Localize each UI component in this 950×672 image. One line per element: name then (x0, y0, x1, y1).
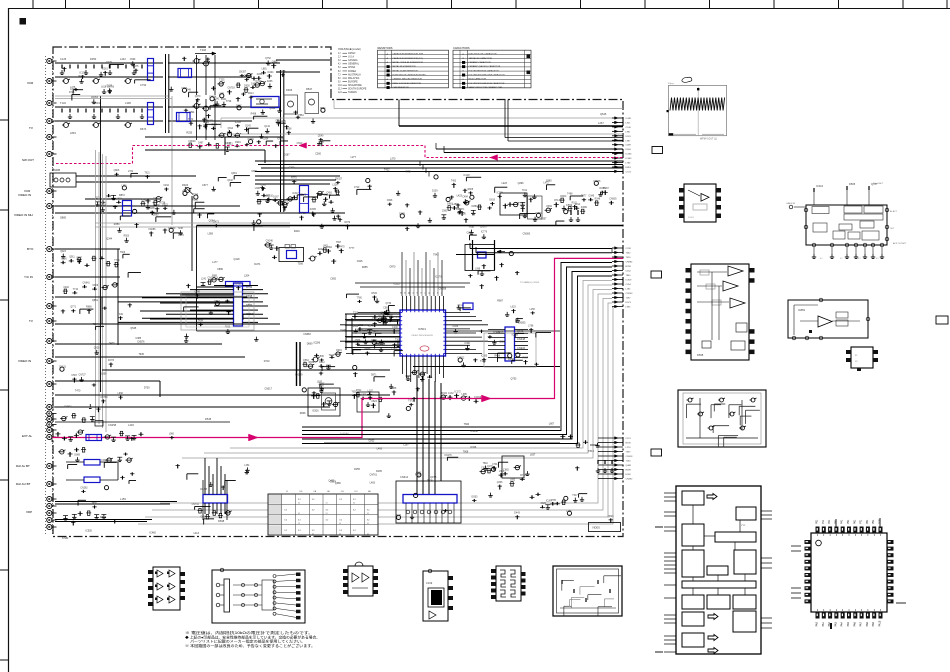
svg-text:(model): (model) (352, 47, 361, 51)
svg-text:AUSTRALIA: AUSTRALIA (348, 73, 361, 76)
svg-text:TO MAIN(1) CN105: TO MAIN(1) CN105 (520, 281, 540, 284)
svg-text:C494: C494 (63, 287, 69, 289)
svg-text:R185: R185 (149, 208, 155, 210)
svg-text:C723: C723 (626, 171, 632, 173)
burst gate cluster (313, 197, 315, 202)
svg-text:T506: T506 (298, 263, 304, 266)
svg-text:C446: C446 (392, 327, 398, 329)
svg-text:CERAMIC (VALLEY) CAPACITOR: CERAMIC (VALLEY) CAPACITOR (469, 65, 501, 68)
svg-text:P81: P81 (866, 519, 869, 524)
svg-text:IC463: IC463 (626, 158, 633, 160)
svg-text:IC779: IC779 (481, 232, 488, 234)
svg-text:8J: 8J (338, 78, 340, 80)
quad op-amp IC603 (691, 264, 749, 360)
svg-text:L423: L423 (457, 195, 463, 198)
pin-row interface IC502 (blue) (505, 327, 515, 361)
hybrid module IC906 (boxed) (553, 566, 622, 616)
svg-text:1J: 1J (353, 503, 355, 505)
svg-text:R629: R629 (415, 473, 421, 476)
svg-text:YYY: YYY (741, 525, 746, 527)
svg-text:L834: L834 (263, 139, 269, 141)
pre-QFP network upper (443, 215, 445, 218)
svg-text:CHIP RESISTOR: CHIP RESISTOR (393, 87, 410, 89)
svg-text:CN683: CN683 (303, 333, 311, 336)
waveform callout balloon (682, 77, 692, 82)
svg-text:POLYPROPYLENE CHIP CAPACITOR: POLYPROPYLENE CHIP CAPACITOR (469, 74, 506, 77)
svg-text:CN216: CN216 (496, 331, 504, 334)
svg-text:IC288: IC288 (512, 334, 519, 337)
svg-text:T435: T435 (372, 320, 378, 322)
magenta solid arrow 2 (482, 395, 492, 402)
svg-text:L586: L586 (319, 356, 325, 358)
VCR input RC network row 1 (55, 62, 163, 64)
svg-text:6J: 6J (338, 71, 340, 73)
svg-text:R789: R789 (626, 266, 632, 268)
svg-text:SOUTH EUROPE: SOUTH EUROPE (348, 89, 367, 91)
svg-text:SINGAPORE: SINGAPORE (348, 84, 362, 87)
svg-text:L204: L204 (244, 274, 250, 277)
svg-text:RESISTORS: RESISTORS (378, 46, 393, 50)
svg-text:CN953: CN953 (91, 97, 99, 99)
magenta dashed signal route (56, 146, 623, 164)
svg-text:3J: 3J (338, 60, 340, 62)
VDP input wires (55, 501, 177, 503)
svg-text:1J: 1J (367, 523, 369, 525)
svg-text:D970: D970 (390, 265, 396, 268)
shield box (dashed) S1 (284, 95, 298, 114)
svg-text:IC172: IC172 (455, 391, 462, 393)
svg-text:IC873: IC873 (108, 360, 115, 362)
svg-text:MICA CAPACITOR: MICA CAPACITOR (469, 78, 487, 81)
svg-text:L223: L223 (502, 182, 508, 185)
delay line DL401 on magenta route (blue) (86, 435, 102, 441)
svg-text:IC696: IC696 (277, 138, 284, 140)
svg-text:CN317: CN317 (264, 388, 272, 391)
svg-text:T520: T520 (626, 257, 632, 259)
svg-text:Q336: Q336 (497, 482, 503, 484)
svg-text:AL ACT: AL ACT (890, 210, 898, 213)
svg-text:P21: P21 (828, 519, 831, 524)
page frame left rule (8, 8, 10, 672)
magenta route arrow 1 (299, 143, 307, 149)
svg-text:C567: C567 (71, 375, 77, 377)
sub-carrier box (500, 193, 527, 215)
svg-text:CN935: CN935 (609, 199, 617, 201)
svg-text:R979: R979 (345, 222, 351, 224)
svg-text:T448: T448 (200, 48, 206, 52)
svg-text:L837: L837 (530, 454, 536, 457)
svg-text:PA7: PA7 (860, 621, 863, 626)
svg-text:1J: 1J (338, 53, 340, 55)
block diagram IC602 (806, 205, 887, 245)
svg-text:T349: T349 (118, 314, 124, 316)
edge connector pins right group 2 (612, 247, 623, 249)
svg-text:R796: R796 (246, 285, 253, 289)
svg-text:12J: 12J (338, 92, 342, 94)
svg-text:VDP: VDP (26, 510, 32, 514)
small regulator IC605 (851, 347, 873, 368)
switch matrix transistors mid (247, 73, 251, 77)
svg-text:CN984: CN984 (626, 262, 634, 264)
svg-text:CN560: CN560 (101, 460, 109, 462)
svg-text:R783: R783 (79, 76, 85, 78)
QFP index ellipse (red) (420, 346, 429, 351)
block left pin stubs (664, 492, 676, 494)
svg-text:Q771: Q771 (70, 307, 76, 309)
microcontroller IC801 (QFP-48) (811, 533, 887, 612)
svg-text:T810: T810 (483, 463, 489, 465)
svg-text:C566: C566 (355, 340, 361, 342)
svg-text:L508: L508 (265, 196, 271, 198)
svg-text:C132: C132 (448, 393, 454, 395)
svg-text:C494: C494 (462, 197, 468, 199)
svg-text:IC784: IC784 (248, 139, 255, 141)
svg-text:T606: T606 (120, 252, 126, 254)
dashed box oscillator (322, 393, 336, 410)
svg-text:TANTALUM CAPACITOR: TANTALUM CAPACITOR (469, 57, 493, 60)
svg-text:Q342: Q342 (227, 180, 233, 182)
svg-text:59: 59 (413, 292, 415, 294)
svg-text:C354: C354 (626, 284, 632, 286)
svg-text:EXT AL: EXT AL (22, 434, 32, 438)
crystal cluster top-center (546, 208, 550, 212)
svg-text:CARBON FILM RESISTOR (P-1): CARBON FILM RESISTOR (P-1) (393, 57, 424, 60)
svg-text:C881: C881 (251, 170, 257, 173)
svg-text:T325: T325 (219, 80, 225, 82)
svg-text:Q296: Q296 (518, 182, 525, 185)
filter FL102 (blue) (177, 113, 191, 122)
svg-text:Q158: Q158 (430, 475, 437, 479)
svg-text:T841: T841 (214, 99, 220, 101)
svg-text:TV: TV (29, 126, 33, 130)
svg-text:CN649: CN649 (188, 141, 196, 143)
wires from left jacks to sync column (55, 296, 247, 298)
main video processor IC501 (QFP) (400, 310, 446, 356)
svg-text:D430: D430 (109, 342, 115, 345)
svg-text:C256: C256 (61, 259, 67, 261)
svg-text:R366: R366 (387, 316, 393, 318)
svg-text:IC601: IC601 (688, 217, 695, 219)
svg-text:20: 20 (437, 292, 439, 294)
svg-text:CN230: CN230 (168, 228, 176, 230)
svg-text:CN458: CN458 (299, 213, 307, 215)
svg-text:PA6: PA6 (853, 621, 856, 626)
svg-text:R954: R954 (320, 108, 326, 110)
svg-text:C487: C487 (198, 143, 204, 145)
svg-text:R346: R346 (595, 199, 601, 201)
svg-text:Q919: Q919 (231, 173, 237, 175)
svg-text:L960: L960 (169, 434, 175, 436)
svg-text:P91: P91 (872, 519, 875, 524)
QFP bottom pin stubs (402, 356, 404, 374)
svg-text:R503: R503 (124, 235, 130, 237)
svg-text:0.1: 0.1 (840, 258, 843, 260)
svg-text:T470: T470 (75, 390, 81, 393)
svg-text:C824: C824 (371, 401, 377, 403)
svg-text:VIDEO: VIDEO (592, 526, 600, 530)
svg-text:CN327: CN327 (335, 179, 343, 181)
svg-text:D545: D545 (205, 417, 212, 421)
svg-text:C125: C125 (60, 57, 67, 61)
svg-text:C998: C998 (387, 200, 393, 202)
svg-text:D459: D459 (399, 213, 405, 215)
buffer amp Q111 (blue box) (251, 97, 279, 108)
svg-text:R775: R775 (291, 178, 297, 180)
svg-text:PA9: PA9 (872, 621, 875, 626)
dual comparator IC905 (496, 566, 521, 601)
op-amp module IC604 (788, 300, 868, 338)
svg-text:Q814: Q814 (227, 128, 233, 130)
video buffer IC201 (blue) (123, 201, 132, 217)
svg-text:CHINA: CHINA (348, 66, 356, 69)
svg-text:IC112: IC112 (394, 282, 401, 285)
svg-text:T710: T710 (114, 260, 120, 262)
oscilloscope waveform photo (668, 85, 726, 135)
svg-text:R498: R498 (251, 114, 257, 116)
svg-text:Q930: Q930 (269, 107, 276, 110)
svg-text:L381: L381 (244, 465, 250, 467)
svg-text:CN383: CN383 (523, 232, 531, 235)
sync separator pin-row IC301 (blue) (234, 283, 243, 326)
svg-text:L250: L250 (530, 309, 536, 311)
svg-text:D259: D259 (257, 74, 263, 76)
svg-text:VIDEO IN: VIDEO IN (18, 193, 31, 197)
svg-text:CN703: CN703 (227, 88, 235, 90)
svg-text:L277: L277 (351, 156, 357, 159)
svg-text:D885: D885 (60, 217, 66, 220)
svg-text:T444: T444 (329, 354, 335, 357)
svg-text:T470: T470 (339, 246, 345, 248)
svg-text:CN246: CN246 (266, 241, 274, 243)
block arrows (707, 494, 717, 500)
svg-text:D564: D564 (626, 149, 632, 151)
svg-text:CN404: CN404 (206, 119, 214, 122)
dual op-amp IC903 (8-pin DIP) (348, 566, 373, 596)
svg-text:1J: 1J (298, 523, 300, 525)
svg-text:L165: L165 (566, 511, 572, 513)
svg-text:AV.P OUT ACT: AV.P OUT ACT (893, 242, 907, 245)
svg-text:5J: 5J (338, 67, 340, 69)
svg-text:C837: C837 (466, 233, 472, 235)
distributed passive components texture (109, 89, 111, 94)
svg-text:C896: C896 (217, 268, 223, 271)
below QFP bus (413, 366, 560, 368)
gray bus companions (nested L routes) (230, 281, 612, 449)
block bus bar (682, 581, 756, 588)
svg-text:D139: D139 (432, 190, 438, 192)
svg-text:L565: L565 (395, 317, 401, 319)
svg-text:IC460: IC460 (149, 532, 156, 535)
svg-text:T517: T517 (572, 495, 578, 497)
svg-text:1J: 1J (286, 491, 288, 493)
svg-text:L623: L623 (511, 307, 517, 309)
svg-text:CN783: CN783 (100, 397, 108, 399)
svg-text:U.S.A: U.S.A (348, 56, 354, 59)
svg-text:T813: T813 (588, 449, 594, 453)
svg-text:IC266: IC266 (626, 154, 633, 156)
QFP inner crosshair ticks (817, 534, 819, 536)
svg-text:P71: P71 (860, 519, 863, 524)
svg-text:2J: 2J (338, 57, 340, 59)
svg-text:CANADA: CANADA (348, 59, 358, 62)
svg-text:R713: R713 (554, 200, 560, 202)
svg-text:D505: D505 (849, 182, 856, 186)
svg-text:D326: D326 (471, 446, 477, 449)
svg-text:T735: T735 (193, 195, 199, 197)
svg-text:1J: 1J (326, 503, 328, 505)
svg-text:IC548: IC548 (368, 325, 375, 327)
sub video wires (55, 248, 120, 250)
svg-text:R214: R214 (248, 93, 254, 95)
svg-text:L469: L469 (377, 448, 383, 451)
svg-text:T238: T238 (178, 228, 184, 230)
DAC IC401 blue body (203, 495, 228, 504)
svg-text:CN727: CN727 (79, 374, 87, 376)
svg-text:C798: C798 (246, 294, 253, 298)
svg-text:L576: L576 (178, 234, 184, 237)
svg-text:MALAYSIA: MALAYSIA (348, 77, 360, 80)
svg-text:CN179: CN179 (444, 455, 452, 457)
EXT AL input network (51, 438, 53, 443)
svg-text:L881: L881 (262, 69, 268, 71)
svg-text:1J: 1J (339, 523, 341, 525)
svg-text:L995: L995 (626, 307, 632, 309)
svg-text:11J: 11J (338, 89, 342, 91)
svg-text:D884: D884 (201, 516, 207, 518)
svg-text:10J: 10J (338, 85, 342, 87)
svg-text:L242: L242 (120, 57, 126, 61)
svg-text:METAL FILM RESISTOR: METAL FILM RESISTOR (393, 65, 417, 68)
svg-text:R458: R458 (494, 355, 500, 357)
svg-text:14: 14 (401, 292, 403, 294)
svg-text:VIDEO PROCESSOR: VIDEO PROCESSOR (411, 335, 433, 337)
page link symbol 1 (652, 147, 663, 154)
nested outline around IC301 (181, 292, 254, 330)
regulator cluster with blue part above QFP right (465, 245, 495, 271)
svg-text:1J: 1J (298, 503, 300, 505)
svg-text:L936: L936 (255, 188, 261, 190)
svg-text:R455: R455 (362, 266, 368, 269)
svg-text:C175: C175 (133, 66, 139, 68)
svg-text:C385: C385 (135, 337, 141, 340)
svg-text:D357: D357 (541, 217, 547, 220)
svg-text:L785: L785 (551, 500, 557, 502)
svg-text:T498: T498 (567, 193, 573, 195)
svg-text:C807: C807 (181, 88, 187, 90)
svg-text:L267: L267 (598, 121, 604, 125)
svg-text:DAI AU BT: DAI AU BT (16, 482, 31, 486)
dashed box X301 (528, 196, 543, 219)
clamp transistor Q204 (185, 188, 190, 193)
svg-text:PA1: PA1 (822, 621, 825, 626)
svg-text:26: 26 (442, 292, 444, 294)
svg-text:SW OUT: SW OUT (22, 158, 34, 162)
svg-text:R839: R839 (309, 362, 315, 364)
svg-text:L821: L821 (626, 122, 632, 124)
svg-text:T921: T921 (144, 172, 150, 174)
svg-text:C390: C390 (464, 343, 470, 345)
board name label box (589, 523, 621, 532)
svg-text:L894: L894 (189, 111, 195, 114)
svg-text:D330: D330 (453, 326, 459, 328)
magenta route arrow 2 (490, 155, 498, 161)
left edge connector strip CN101 (45, 56, 47, 536)
svg-text:R311: R311 (572, 202, 578, 204)
svg-text:Q906: Q906 (114, 170, 120, 172)
svg-text:CN392: CN392 (626, 479, 634, 481)
svg-text:CEMENT WELDED RESISTOR: CEMENT WELDED RESISTOR (393, 79, 423, 81)
svg-text:T561: T561 (298, 114, 304, 117)
svg-text:D871: D871 (371, 374, 377, 376)
transistor cluster right-mid (313, 357, 318, 362)
svg-text:L270: L270 (626, 447, 632, 449)
svg-text:C891: C891 (260, 185, 266, 187)
svg-text:CN208: CN208 (439, 288, 447, 291)
svg-text:R674: R674 (140, 127, 147, 131)
block right pin stubs (761, 510, 772, 512)
svg-text:C162: C162 (626, 271, 632, 273)
svg-text:D887: D887 (246, 303, 253, 307)
svg-text:T780: T780 (357, 297, 363, 299)
svg-text:T171: T171 (459, 209, 465, 211)
vertical bus pair x=281 (280, 70, 282, 212)
svg-text:KO: KO (355, 491, 358, 493)
svg-text:T904: T904 (378, 345, 384, 347)
svg-text:L370: L370 (390, 157, 396, 160)
left of QFP component field (354, 315, 356, 319)
svg-text:CN175: CN175 (278, 120, 286, 123)
svg-text:R334: R334 (441, 393, 447, 395)
svg-text:L835: L835 (317, 382, 323, 384)
svg-text:R419: R419 (294, 230, 300, 233)
svg-text:P01: P01 (816, 519, 819, 524)
svg-text:METAL OXIDE FILM RESISTOR: METAL OXIDE FILM RESISTOR (393, 61, 424, 64)
svg-text:D902: D902 (626, 474, 632, 476)
svg-text:0.1: 0.1 (858, 258, 861, 260)
svg-text:T324: T324 (93, 324, 99, 326)
svg-text:IC655: IC655 (599, 188, 606, 190)
svg-text:P51: P51 (847, 519, 850, 524)
gray rails video section (95, 222, 290, 224)
svg-text:40: 40 (429, 292, 431, 294)
svg-text:IC128: IC128 (463, 175, 470, 177)
svg-text:18: 18 (421, 292, 423, 294)
svg-text:EUROPE: EUROPE (348, 81, 358, 83)
svg-text:D864: D864 (326, 247, 332, 249)
adjustment table (268, 494, 378, 535)
page link symbol 4 (far right) (936, 316, 948, 324)
svg-text:R736: R736 (160, 201, 166, 204)
svg-text:Q418: Q418 (234, 258, 241, 261)
svg-text:※ 本回路図の一部は改良のため、予告なく変更することがござい: ※ 本回路図の一部は改良のため、予告なく変更することがございます。 (185, 643, 315, 648)
svg-text:PA4: PA4 (841, 621, 844, 626)
svg-text:DAI AL BT: DAI AL BT (16, 464, 30, 468)
svg-text:PA8: PA8 (866, 621, 869, 626)
svg-text:C792: C792 (140, 83, 147, 87)
svg-text:CN357: CN357 (239, 72, 247, 74)
wires above magenta into group2 (470, 248, 612, 250)
svg-text:L987: L987 (626, 140, 632, 142)
transistor cluster below-left of QFP (357, 392, 359, 397)
svg-text:C151: C151 (626, 438, 632, 440)
svg-text:D202: D202 (369, 440, 375, 443)
svg-text:VIDEO IN MH: VIDEO IN MH (14, 213, 33, 217)
svg-text:IC576: IC576 (364, 349, 371, 351)
svg-text:R847: R847 (306, 87, 313, 91)
svg-text:SEMICONDUCTOR CERAMIC CAP.: SEMICONDUCTOR CERAMIC CAP. (469, 86, 503, 89)
block internal connections (692, 505, 694, 524)
svg-text:L959: L959 (208, 233, 214, 236)
